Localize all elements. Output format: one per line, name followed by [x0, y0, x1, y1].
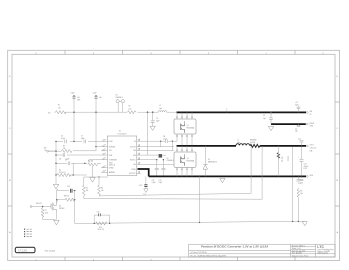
GND return top bus: [271, 123, 306, 125]
svg-text:C8: C8: [59, 158, 61, 160]
wire SW line: [141, 141, 174, 150]
svg-text:R6: R6: [101, 187, 103, 189]
capacitor C11 4.7uF: [152, 160, 159, 185]
svg-text:1µF: 1µF: [77, 97, 80, 99]
svg-text:470µF: 470µF: [304, 166, 308, 168]
svg-text:RSENSE: RSENSE: [250, 140, 256, 142]
ground feedback end: [302, 222, 307, 226]
svg-text:R1: R1: [58, 105, 60, 107]
resistor R5: [82, 177, 88, 198]
svg-text:Q3: Q3: [59, 205, 61, 207]
svg-text:1µF: 1µF: [99, 97, 102, 99]
svg-text:100: 100: [129, 108, 132, 110]
svg-text:39pF: 39pF: [81, 138, 85, 140]
capacitor C12 10uF: [159, 159, 166, 184]
diode D3 CMDSH-3: [116, 94, 125, 112]
svg-text:+C19: +C19: [139, 185, 143, 187]
svg-text:INTVCC: INTVCC: [130, 159, 137, 161]
resistor R6: [98, 177, 104, 195]
svg-text:0.1µF: 0.1µF: [163, 138, 167, 140]
node C junction: [147, 111, 149, 113]
svg-text:100k: 100k: [45, 213, 49, 215]
ground left bus: [53, 175, 69, 191]
svg-text:MBRS340T3: MBRS340T3: [208, 162, 217, 164]
svg-text:10µF: 10µF: [156, 120, 160, 122]
wire VIN pin line: [141, 154, 159, 156]
svg-text:VOSENSE: VOSENSE: [109, 159, 117, 161]
svg-text:* Not installed: * Not installed: [44, 249, 55, 252]
diode D1 MBRS340T3: [203, 146, 217, 177]
VIN bus thick: [177, 111, 307, 113]
resistor R10 with C18 parallel: [94, 212, 111, 232]
frame (decorative): [8, 50, 340, 261]
svg-text:10µF: 10µF: [295, 104, 299, 106]
svg-text:LT 1.3.6: LT 1.3.6: [19, 250, 28, 252]
svg-text:D2: D2: [167, 158, 169, 160]
svg-text:0.1µF: 0.1µF: [61, 138, 65, 140]
capacitor C6: [61, 136, 66, 144]
svg-text:+: +: [298, 156, 299, 158]
resistor R9 below gnd: [297, 176, 304, 221]
svg-text:C13: C13: [304, 163, 307, 165]
transistor Q2 FDS6680A: [174, 146, 196, 177]
svg-text:56.2k 1%: 56.2k 1%: [98, 229, 105, 231]
wire divider gnd drop: [199, 176, 201, 222]
wire INTVCC line: [141, 159, 157, 161]
svg-text:10µF: 10µF: [159, 182, 163, 184]
svg-text:C6: C6: [61, 136, 63, 138]
svg-text:R2: R2: [129, 106, 131, 108]
wire FCB row: [56, 154, 101, 156]
title block: [189, 244, 335, 257]
svg-text:CB: CB: [163, 136, 165, 138]
node A bypass stub: [71, 93, 82, 113]
svg-text:35.7k 1%: 35.7k 1%: [59, 172, 66, 174]
capacitor CIN 10uF x2: [295, 102, 300, 112]
wire sense line B: [84, 198, 262, 199]
resistor snubber: [277, 146, 288, 177]
wire COSC row: [56, 140, 101, 142]
svg-text:C20 x2: C20 x2: [287, 156, 289, 161]
wire sense drop B: [261, 146, 263, 200]
svg-text:1µF: 1µF: [263, 118, 266, 120]
svg-text:10k: 10k: [101, 190, 104, 192]
svg-text:+C2: +C2: [295, 102, 298, 104]
wire fb vertical: [74, 191, 76, 224]
terminal GND bottom: [306, 175, 313, 177]
svg-text:10k: 10k: [86, 190, 89, 192]
svg-text:R7: R7: [45, 210, 47, 212]
transistor Q3 2N7002: [51, 190, 65, 220]
wire ITH row: [56, 162, 101, 164]
wire RUN/SS row: [48, 147, 101, 152]
capacitor below GND: [298, 176, 303, 185]
svg-text:CMDSH-3: CMDSH-3: [116, 97, 123, 99]
pin labels U1 left: [108, 141, 116, 174]
svg-text:0.002Ω: 0.002Ω: [250, 142, 256, 144]
terminal VOUT: [306, 145, 317, 153]
ground top section: [268, 126, 273, 130]
svg-text:C9: C9: [65, 160, 67, 162]
inductor L1: [236, 140, 250, 146]
svg-text:D1: D1: [208, 159, 210, 161]
svg-text:C7: C7: [81, 136, 83, 138]
svg-text:R11 1Ω: R11 1Ω: [280, 157, 282, 163]
capacitor C5 10uF to gnd: [151, 112, 160, 126]
svg-text:L2: L2: [159, 105, 161, 107]
ground Q3: [54, 220, 60, 225]
wire ITH vertical link: [72, 163, 74, 175]
diode D2 CMDSH-3: [159, 154, 174, 162]
logo box: [15, 247, 35, 252]
pin labels U1 right: [129, 141, 136, 175]
wire VIN pin drop: [147, 112, 149, 155]
svg-text:R5: R5: [86, 187, 88, 189]
svg-text:R3: R3: [63, 145, 65, 147]
svg-text:2N7002: 2N7002: [59, 208, 65, 210]
wire VOUT thick: [260, 145, 306, 147]
capacitor C19 intvcc: [139, 176, 149, 195]
resistor R7 pulldown: [41, 206, 55, 220]
ground RC: [90, 166, 96, 183]
capacitor CB 0.1uF: [163, 136, 167, 143]
svg-text:10k: 10k: [63, 148, 66, 150]
svg-text:4.7µF: 4.7µF: [93, 93, 97, 95]
wire BG line: [141, 163, 174, 165]
svg-text:Revision: 08/34 ra: Revision: 08/34 ra: [292, 245, 305, 247]
svg-text:C4: C4: [295, 128, 297, 130]
svg-text:(VID1-4): (VID1-4): [109, 164, 115, 166]
inductor L2 1uH: [158, 105, 167, 112]
terminal GND top: [306, 123, 314, 128]
svg-text:C12: C12: [159, 180, 162, 182]
capacitor above VOUT: [298, 138, 303, 146]
svg-text:VIN: VIN: [44, 148, 47, 150]
wire feedback bottom: [75, 221, 305, 223]
svg-text:U1: U1: [119, 131, 121, 133]
svg-text:D3: D3: [116, 94, 118, 96]
resistor R8: [57, 196, 75, 202]
pin leads U1 left: [101, 140, 108, 173]
wire drain row: [56, 200, 58, 203]
svg-text:10k: 10k: [300, 193, 303, 195]
svg-text:R8 10k: R8 10k: [64, 196, 69, 198]
svg-text:BOOST: BOOST: [130, 146, 136, 148]
wire SW thick: [177, 145, 237, 147]
wire VOSENSE row: [89, 160, 101, 164]
wire sgnd rail: [84, 176, 108, 178]
svg-text:C18: C18: [97, 212, 100, 214]
wire top 5V input line: [55, 111, 177, 113]
svg-text:R10: R10: [99, 227, 102, 229]
svg-text:100: 100: [58, 107, 61, 109]
svg-text:PGOOD: PGOOD: [36, 203, 43, 205]
svg-text:FCB: FCB: [109, 155, 112, 157]
svg-text:L1: L1: [237, 140, 239, 142]
wire sense drop A: [250, 146, 252, 193]
note text: [24, 229, 32, 237]
resistor RSENSE: [250, 140, 260, 148]
node left bus: [55, 141, 57, 175]
svg-text:1µF: 1µF: [295, 130, 298, 132]
node D junction: [152, 111, 154, 113]
terminal VIN 5V left: [44, 148, 56, 152]
svg-text:VOUT: VOUT: [310, 145, 314, 147]
svg-text:0.1µF: 0.1µF: [71, 93, 75, 95]
svg-text:1µH: 1µH: [237, 142, 240, 144]
resistor R3 10k: [62, 145, 72, 152]
node B bypass stub: [93, 93, 102, 113]
svg-text:CMDSH-3: CMDSH-3: [167, 160, 174, 162]
resistor RC box: [88, 160, 98, 165]
terminal VIN: [306, 111, 312, 116]
wire BOOST line: [141, 141, 174, 147]
svg-text:C14: C14: [298, 138, 301, 140]
svg-text:C11: C11: [152, 180, 155, 182]
wire PGND thick: [138, 169, 149, 176]
svg-text:Q2: Q2: [187, 158, 189, 160]
svg-text:VIN: VIN: [310, 111, 313, 113]
svg-text:EXTVCC: EXTVCC: [129, 173, 136, 175]
wire sense line A: [99, 193, 251, 196]
svg-text:C16: C16: [300, 182, 303, 184]
resistor R2 100: [128, 106, 136, 114]
node bypass drop B: [95, 112, 97, 146]
terminal PGOOD: [30, 203, 51, 207]
wire TG line: [141, 140, 177, 142]
capacitor COUT B: [298, 145, 308, 177]
svg-text:1µH: 1µH: [159, 108, 162, 110]
svg-text:C10: C10: [67, 186, 70, 188]
svg-text:Q1: Q1: [187, 125, 189, 127]
svg-text:LTC: LTC: [317, 245, 324, 249]
capacitor C3 1uF: [263, 112, 273, 125]
svg-text:1.3V-1.5V: 1.3V-1.5V: [310, 148, 318, 150]
capacitor COUT A: [292, 145, 294, 221]
capacitor C7: [81, 136, 86, 144]
svg-text:C5: C5: [156, 118, 158, 120]
svg-text:LTC1736CG: LTC1736CG: [118, 133, 127, 135]
svg-text:VID0: VID0: [109, 162, 113, 164]
svg-text:(408) 432-1900: (408) 432-1900: [318, 253, 328, 255]
svg-text:RUN/SS: RUN/SS: [109, 146, 115, 148]
capacitor C4 below gnd bus: [295, 124, 300, 132]
transistor Q1 FDS6680A: [174, 112, 196, 145]
node test point: [226, 110, 228, 113]
ground input cap: [150, 126, 155, 130]
svg-text:4.7µF: 4.7µF: [152, 182, 156, 184]
pin numbers U1: [105, 139, 140, 172]
resistor R4 35.7k: [55, 169, 87, 176]
svg-text:R9: R9: [300, 190, 302, 192]
node bypass drop A: [73, 112, 75, 141]
svg-text:Pentium III DC/DC Converter 1.: Pentium III DC/DC Converter 1.3V at 1.5V…: [201, 245, 268, 249]
svg-text:C3: C3: [263, 115, 265, 117]
op-amp U1 LTC1736CG: [107, 131, 137, 176]
svg-text:R4: R4: [59, 169, 61, 171]
resistor R1 1ohm input: [56, 105, 67, 114]
ground PGND bus: [220, 178, 225, 182]
capacitor C10: [67, 186, 75, 193]
capacitor C8: [59, 153, 70, 160]
capacitor C9: [65, 160, 70, 166]
pin leads U1 right: [137, 140, 141, 174]
